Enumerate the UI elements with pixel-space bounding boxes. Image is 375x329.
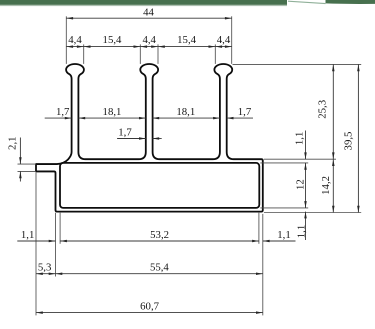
svg-text:18,1: 18,1 — [103, 106, 122, 118]
svg-text:2,1: 2,1 — [7, 136, 19, 150]
right extension line box bottom — [264, 212, 361, 214]
dim 1,7 middle text — [118, 127, 132, 139]
bottom extension line box left — [55, 213, 57, 277]
svg-text:1,1: 1,1 — [294, 132, 306, 146]
dim 39,5 text — [343, 132, 355, 151]
green header bar faint streak — [288, 1, 326, 3]
dim 1,7 middle arrows — [139, 137, 159, 140]
svg-text:12: 12 — [295, 179, 307, 190]
svg-text:44: 44 — [143, 6, 154, 18]
dim row B1 lines — [17, 240, 295, 242]
inner cavity — [60, 163, 259, 208]
dim 39,5 arrows — [357, 64, 360, 212]
dim row B1 arrows — [49, 240, 270, 243]
dim 18,1 right text — [176, 106, 195, 118]
svg-text:60,7: 60,7 — [140, 301, 159, 313]
dim 44 extension line left — [65, 16, 67, 64]
dim 44 text — [143, 6, 154, 18]
dim row2 arrows — [66, 45, 231, 48]
dim 12 text — [295, 179, 307, 190]
dim 44 line — [66, 17, 231, 19]
dim 15,4 second text — [177, 34, 196, 46]
svg-text:1,7: 1,7 — [118, 127, 132, 139]
dim 1,1 top right text — [294, 132, 306, 146]
green header bar right segment — [326, 0, 375, 4]
dim 1,7 right text — [238, 106, 252, 118]
dim 39,5 line — [357, 64, 359, 212]
bottom extension line box right — [262, 214, 264, 316]
dim 44 arrow left — [66, 17, 73, 20]
dim 44 extension line right — [231, 16, 233, 64]
dim 5,3 text — [38, 262, 52, 274]
bottom extension line cavity left — [59, 213, 61, 244]
right extension line box top — [264, 158, 336, 160]
right extension line cavity top — [260, 162, 308, 164]
profile outline — [36, 64, 263, 212]
dim 2,1 text — [7, 136, 19, 150]
dim row3 arrows — [65, 117, 234, 120]
dim 1,7 left text — [56, 106, 70, 118]
dim 53,2 text — [150, 229, 169, 241]
dim 1,1 bottom right vertical text — [296, 225, 308, 239]
svg-text:15,4: 15,4 — [177, 34, 196, 46]
dim 1,1 top right line — [305, 131, 307, 241]
dim 4,4 second text — [142, 34, 156, 46]
dim 25,3 arrows — [332, 64, 335, 159]
dim 60,7 arrows — [36, 311, 263, 314]
bottom extension line tab end — [35, 173, 37, 316]
dim 4,4 first text — [68, 34, 82, 46]
dim 2,1 line — [19, 138, 21, 182]
dim 14,2 text — [320, 176, 332, 195]
svg-text:14,2: 14,2 — [320, 176, 332, 195]
bottom extension line cavity right — [258, 213, 260, 244]
dim 2,1 arrows — [19, 157, 22, 178]
right extension line cavity bottom — [260, 207, 308, 209]
dim 15,4 first text — [103, 34, 122, 46]
svg-text:55,4: 55,4 — [150, 262, 169, 274]
right extension line knob top — [233, 63, 362, 65]
dim 4,4 third text — [217, 34, 231, 46]
svg-text:39,5: 39,5 — [343, 132, 355, 151]
dim 1,1 top right arrows — [304, 152, 307, 218]
svg-text:1,1: 1,1 — [277, 229, 291, 241]
dim 60,7 line — [36, 312, 263, 314]
svg-text:15,4: 15,4 — [103, 34, 122, 46]
dim row2 line — [66, 46, 231, 48]
svg-text:25,3: 25,3 — [317, 100, 329, 119]
dim row2 extension lines — [84, 44, 216, 64]
dim 2,1 extension lines — [18, 164, 37, 171]
dim row B2 arrows — [36, 272, 263, 275]
dim 1,1 bottom left text — [21, 229, 35, 241]
dim row B2 line — [36, 273, 263, 275]
svg-text:5,3: 5,3 — [38, 262, 52, 274]
dim 1,1 bottom right text — [277, 229, 291, 241]
svg-text:1,1: 1,1 — [296, 225, 308, 239]
svg-text:4,4: 4,4 — [217, 34, 231, 46]
dim 25,3 text — [317, 100, 329, 119]
dim 25,3 and 14,2 line — [332, 64, 334, 212]
svg-text:4,4: 4,4 — [142, 34, 156, 46]
dim 14,2 arrows — [332, 159, 335, 212]
svg-text:53,2: 53,2 — [150, 229, 169, 241]
svg-text:1,1: 1,1 — [21, 229, 35, 241]
dim row3 lines — [45, 117, 253, 119]
dim 44 arrow right — [225, 17, 232, 20]
svg-text:18,1: 18,1 — [176, 106, 195, 118]
svg-text:1,7: 1,7 — [238, 106, 252, 118]
dim 1,7 middle lines — [117, 138, 162, 140]
svg-text:4,4: 4,4 — [68, 34, 82, 46]
green header bar left segment — [0, 0, 287, 6]
svg-text:1,7: 1,7 — [56, 106, 70, 118]
dim 55,4 text — [150, 262, 169, 274]
dim 60,7 text — [140, 301, 159, 313]
dim 18,1 left text — [103, 106, 122, 118]
